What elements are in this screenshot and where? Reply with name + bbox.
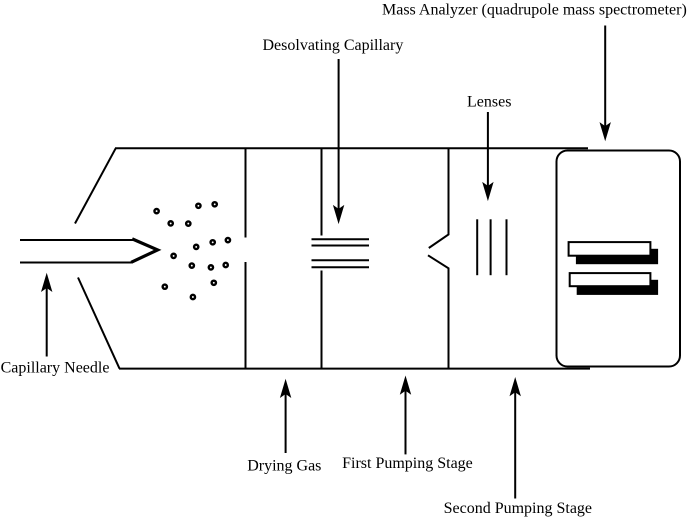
chamber lower-left slanted wall [78,278,120,369]
svg-text:Drying Gas: Drying Gas [247,458,321,475]
skimmer upper section [429,148,449,248]
counter electrode plate lower segment [245,262,247,369]
arrow: drying gas inlet [280,379,291,453]
lens plate 3 [506,219,508,275]
arrow to capillary needle [41,273,52,357]
skimmer lower section [428,255,449,368]
mass analyzer housing [557,151,681,367]
spray droplets [154,202,230,299]
chamber top wall [115,147,588,149]
svg-text:Second Pumping Stage: Second Pumping Stage [444,500,592,517]
arrow to desolvating capillary [333,59,344,224]
counter electrode plate upper segment [245,148,247,237]
arrow: first pumping stage [400,376,411,455]
desolvating capillary wall lower segment [321,271,323,369]
svg-text:Capillary Needle: Capillary Needle [1,360,110,377]
svg-text:First Pumping Stage: First Pumping Stage [342,455,473,472]
chamber bottom wall [119,368,590,370]
lens plate 1 [476,219,478,275]
lens plate 2 [490,219,492,275]
arrow to lenses [482,112,493,201]
quadrupole rod 1 [569,242,659,264]
quadrupole rod 2 [570,273,658,295]
capillary needle [20,239,158,263]
arrow to mass analyzer [600,26,611,142]
svg-text:Lenses: Lenses [467,93,511,110]
desolvating capillary wall upper segment [321,148,323,235]
arrow: second pumping stage [510,377,521,499]
desolvating capillary tube [312,239,370,267]
svg-text:Mass Analyzer (quadrupole mass: Mass Analyzer (quadrupole mass spectrome… [382,2,687,19]
chamber upper-left slanted wall [75,148,116,223]
svg-text:Desolvating Capillary: Desolvating Capillary [263,37,404,54]
